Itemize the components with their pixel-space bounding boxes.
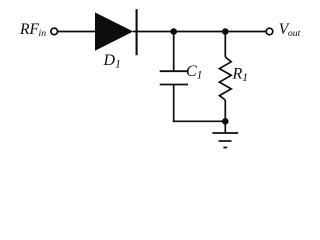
junction node at C1 top (170, 28, 177, 35)
wire C1 bottom lead (173, 85, 175, 123)
resistor R1 zigzag (219, 57, 231, 100)
svg-text:Vout: Vout (279, 21, 301, 39)
diode D1 cathode bar (136, 9, 138, 55)
svg-text:R1: R1 (232, 66, 249, 85)
wire input to diode (58, 31, 96, 33)
junction node at ground (222, 118, 229, 125)
svg-text:RFin: RFin (19, 21, 46, 39)
capacitor C1 bottom plate (160, 84, 188, 86)
junction node at R1 top (222, 28, 229, 35)
wire C1 top lead (173, 32, 175, 72)
wire ground stub (224, 121, 226, 133)
terminal RF_in (51, 28, 58, 35)
wire bottom rail (173, 120, 225, 122)
diode D1 anode triangle (95, 12, 133, 50)
svg-text:D1: D1 (103, 52, 121, 71)
ground (212, 132, 238, 134)
wire diode to output terminal (133, 31, 266, 33)
wire R1 bottom lead (224, 100, 226, 121)
svg-text:C1: C1 (186, 63, 202, 82)
wire R1 top lead (224, 32, 226, 58)
terminal V_out (266, 28, 273, 35)
capacitor C1 top plate (160, 70, 188, 72)
